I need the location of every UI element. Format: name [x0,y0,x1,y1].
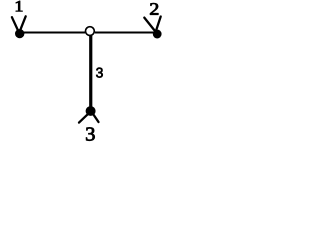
terminal T3 whisker left [79,115,87,123]
terminal T1 whisker right [21,16,26,29]
terminal T3 dot [86,106,96,116]
label 3 (wire 3, sans) [96,68,103,78]
node: central open circle [86,27,95,36]
wire: T1 to center node [22,32,85,34]
terminal T2 dot [153,30,162,39]
label 2 (terminal 2) [150,3,158,15]
wire 3: center node down to T3 (thick) [89,36,92,109]
wire: center node to T2 [95,32,155,34]
terminal T1 dot [15,29,24,38]
terminal T1 whisker left [12,17,18,30]
terminal T3 whisker right [94,115,99,122]
label 1 (terminal 1) [16,1,22,11]
terminal T2 whisker right [156,17,161,31]
terminal T2 whisker left [144,18,154,31]
label 3 (terminal 3) [86,127,94,140]
